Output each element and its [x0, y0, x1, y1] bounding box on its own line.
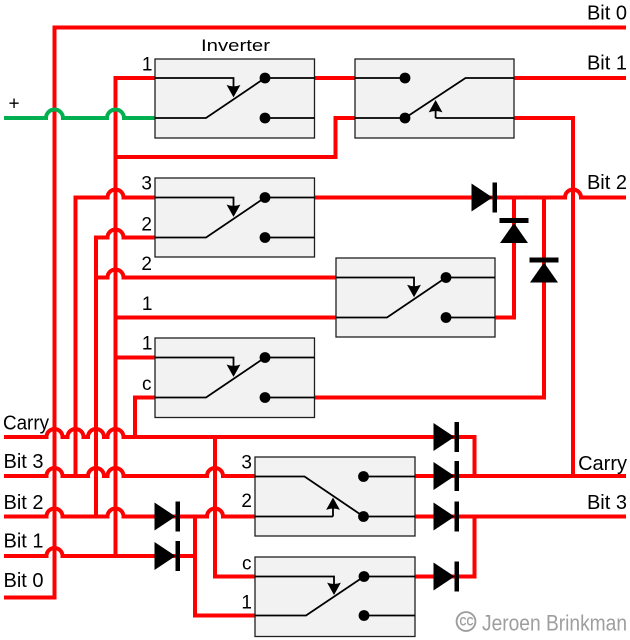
- svg-text:c: c: [142, 374, 152, 395]
- svg-text:1: 1: [142, 55, 153, 76]
- svg-text:2: 2: [141, 254, 152, 275]
- svg-text:Bit 2: Bit 2: [4, 492, 44, 514]
- svg-text:Bit 0: Bit 0: [587, 3, 627, 25]
- svg-text:2: 2: [141, 215, 152, 236]
- svg-text:1: 1: [142, 334, 153, 355]
- svg-text:1: 1: [241, 593, 252, 614]
- svg-text:Jeroen Brinkman: Jeroen Brinkman: [482, 611, 627, 636]
- svg-text:2: 2: [241, 491, 252, 512]
- svg-text:Carry: Carry: [578, 453, 627, 475]
- svg-text:Inverter: Inverter: [201, 36, 270, 55]
- svg-text:Bit 1: Bit 1: [4, 531, 44, 553]
- svg-text:Bit 3: Bit 3: [4, 451, 44, 473]
- svg-text:Bit 1: Bit 1: [587, 53, 627, 75]
- svg-text:c: c: [242, 554, 252, 575]
- svg-text:Bit 2: Bit 2: [587, 172, 627, 194]
- svg-text:1: 1: [142, 294, 153, 315]
- svg-text:3: 3: [141, 174, 152, 195]
- svg-text:Bit 3: Bit 3: [587, 492, 627, 514]
- svg-text:CC: CC: [460, 617, 474, 629]
- svg-text:Bit 0: Bit 0: [4, 570, 44, 592]
- svg-text:3: 3: [241, 453, 252, 474]
- svg-text:+: +: [9, 94, 20, 115]
- svg-text:Carry: Carry: [3, 412, 49, 434]
